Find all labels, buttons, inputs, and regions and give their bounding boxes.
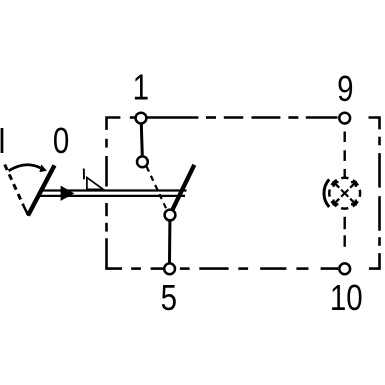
dashed alternate contact position (node B to node C) (147, 167, 167, 209)
wire inner contact to terminal 5 (168, 221, 171, 263)
lever solid position 0 (28, 165, 55, 215)
node B circle (137, 156, 148, 167)
lamp L1: radiating rays with barbs (334, 182, 356, 204)
actuator rod (double line) (39, 191, 187, 196)
svg-text:5: 5 (161, 277, 177, 317)
terminal 10 circle (339, 263, 350, 274)
svg-text:0: 0 (53, 120, 69, 160)
switch body dashed outline: bottom edge (131, 267, 338, 270)
terminal 1 circle (136, 113, 147, 124)
svg-text:1: 1 (133, 67, 149, 107)
motion arrowhead (39, 164, 47, 172)
motion arrow arc (9, 165, 41, 171)
node C circle (165, 210, 176, 221)
terminal circles (136, 113, 351, 274)
lever dashed position I (5, 165, 24, 206)
svg-text:10: 10 (330, 277, 363, 317)
svg-text:I: I (0, 120, 6, 160)
svg-text:9: 9 (337, 68, 353, 108)
detent triangle (87, 178, 103, 190)
terminal 9 circle (339, 113, 350, 124)
lever pivot vee (23, 205, 28, 215)
switch body dashed outline: left edge (107, 139, 123, 269)
lamp L1: center x (341, 190, 348, 197)
wire terminal 1 to inner contact (141, 125, 142, 156)
moving contact blade (171, 165, 194, 212)
switch body dashed outline: top edge (107, 118, 380, 130)
lamp connector dashes (lamp to terminal 10) (344, 217, 346, 247)
switch body dashed outline: right edge (369, 137, 380, 269)
detent tick (83, 169, 85, 180)
lamp L1: dashed circle (329, 178, 360, 209)
actuator arrowhead (61, 186, 75, 201)
lamp connector dashes (terminal 9 to lamp) (344, 132, 346, 177)
lamp L1: left parenthesis arc (324, 179, 329, 207)
terminal 5 circle (164, 263, 175, 274)
